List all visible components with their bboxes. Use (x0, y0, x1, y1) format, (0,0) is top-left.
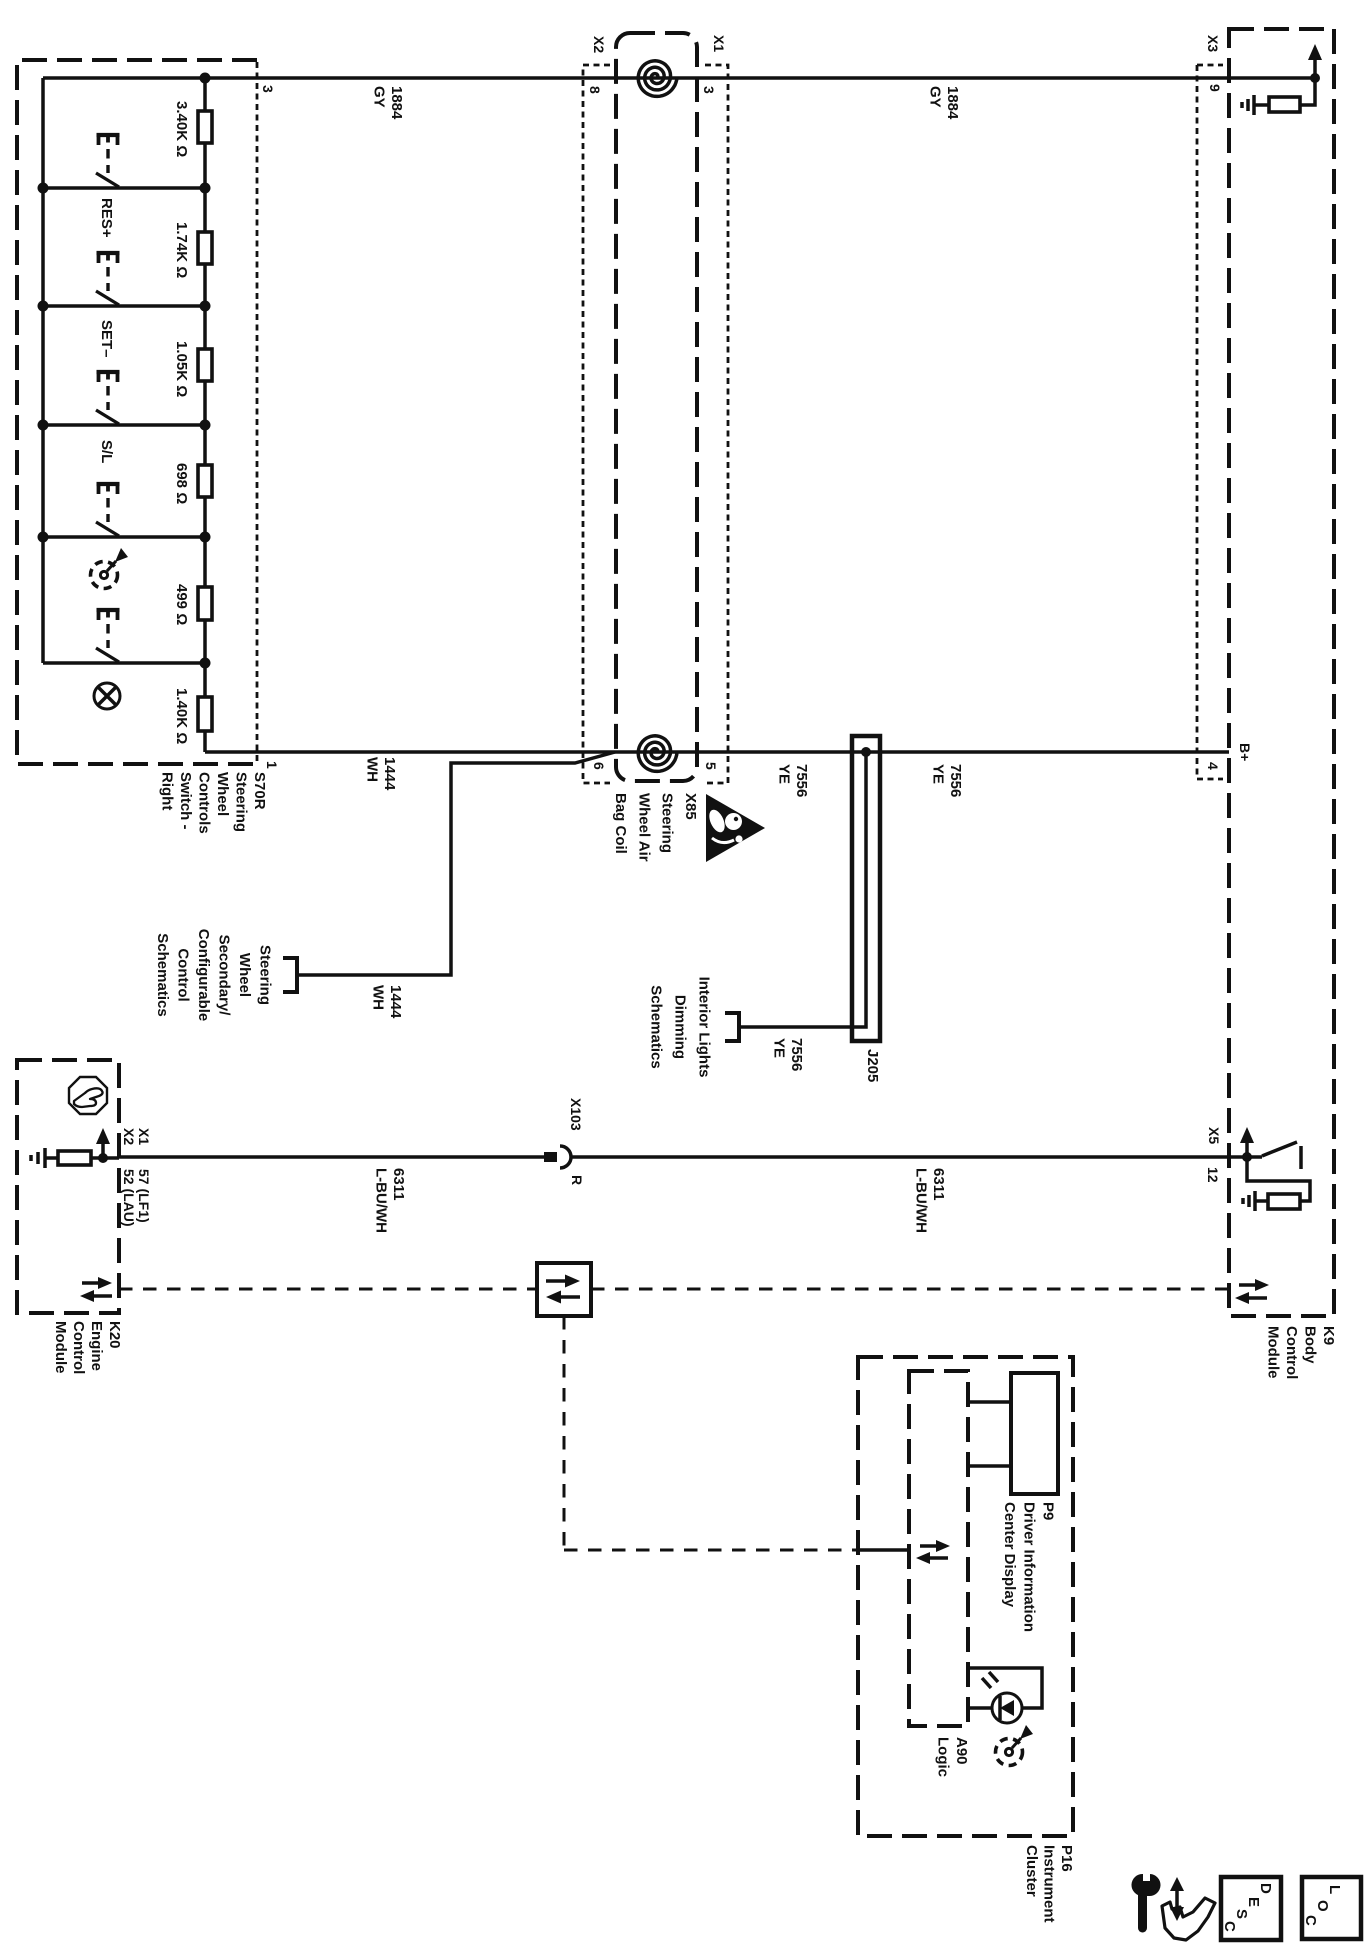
rung 4 (43, 423, 205, 427)
serial data arrows (gateway) (546, 1275, 580, 1304)
K20 engine control module label (52, 1321, 123, 1374)
svg-text:3.40K Ω: 3.40K Ω (173, 101, 190, 157)
air bag coil spiral (bottom) (638, 736, 677, 772)
BCM internal resistor to ground (top) (1254, 78, 1315, 112)
X2 connector dashed line (583, 65, 610, 783)
svg-text:Schematics: Schematics (154, 933, 171, 1016)
svg-text:Wheel Air: Wheel Air (635, 793, 652, 862)
svg-text:499 Ω: 499 Ω (173, 584, 190, 625)
rung 3 (43, 304, 205, 308)
X3 connector dashed line (1197, 65, 1223, 779)
ground symbol (ECM) (31, 1148, 45, 1168)
svg-text:3: 3 (701, 86, 717, 94)
svg-text:Wheel: Wheel (236, 953, 253, 997)
junction dot BCM top (1310, 73, 1320, 83)
S70R name label (159, 772, 269, 834)
svg-text:YE: YE (771, 1038, 788, 1058)
svg-text:52 (LAU): 52 (LAU) (121, 1169, 137, 1227)
svg-text:Secondary/: Secondary/ (216, 935, 233, 1017)
P9 label (1001, 1502, 1057, 1632)
svg-text:7556: 7556 (793, 764, 810, 797)
wire 6311 right segment (572, 1155, 1262, 1159)
svg-text:WH: WH (364, 757, 381, 782)
branch wire 1444 WH to schematic reference (297, 752, 615, 975)
wire label 7556 YE (right) (930, 764, 965, 797)
svg-text:WH: WH (370, 985, 387, 1010)
ECM pin labels X1 X2 (121, 1128, 152, 1145)
junction dots on ladder (38, 73, 211, 669)
svg-text:7556: 7556 (947, 764, 964, 797)
wire label 6311 L-BU/WH (right) (913, 1168, 948, 1233)
svg-text:X1: X1 (711, 35, 727, 52)
resistor 1.05K ohm (198, 349, 212, 381)
serial data dashed branch (down) (563, 1316, 566, 1550)
svg-text:Right: Right (159, 772, 176, 810)
ground symbol (BCM top) (1242, 95, 1254, 115)
switch cruise (below icon) (96, 610, 120, 662)
svg-text:GY: GY (371, 86, 388, 108)
junction dot at J205 (861, 747, 871, 757)
junction dot ECM (98, 1153, 108, 1163)
svg-text:YE: YE (776, 764, 793, 784)
svg-text:K20: K20 (106, 1321, 123, 1349)
P16 dashed box (858, 1357, 1073, 1836)
svg-text:Controls: Controls (196, 772, 213, 834)
BCM internal resistor to ground (X5) (1247, 1157, 1310, 1209)
schematic reference bracket (steering wheel secondary) (283, 958, 297, 992)
resistor 698 ohm (198, 465, 212, 497)
ladder left rail (41, 78, 45, 663)
svg-text:D: D (1257, 1883, 1274, 1894)
lamp symbol in S70R (94, 683, 120, 709)
svg-text:X3: X3 (1205, 35, 1221, 52)
svg-text:1444: 1444 (387, 985, 404, 1019)
serial data dashed line (ECM to gateway square) (119, 1288, 537, 1291)
svg-text:1884: 1884 (388, 86, 405, 120)
svg-text:C: C (1221, 1921, 1238, 1932)
svg-text:Switch -: Switch - (177, 772, 194, 830)
svg-text:Dimming: Dimming (672, 995, 689, 1059)
svg-text:S70R: S70R (251, 772, 268, 810)
ECM pin labels 57 (LF1) / 52 (LAU) (121, 1169, 152, 1227)
K20 ECM dashed box (17, 1060, 119, 1313)
wire 6311 left segment (119, 1155, 545, 1159)
serial data arrows (BCM) (1235, 1279, 1269, 1304)
ground symbol (BCM X5) (1243, 1191, 1255, 1211)
svg-text:1: 1 (264, 761, 280, 769)
svg-text:P9: P9 (1040, 1502, 1057, 1520)
svg-text:6: 6 (591, 762, 607, 770)
svg-text:X2: X2 (591, 36, 607, 53)
svg-text:K9: K9 (1320, 1326, 1337, 1345)
S70R connector dashed line (right edge) (256, 62, 259, 764)
svg-text:7556: 7556 (788, 1038, 805, 1071)
X103 inline connector (544, 1146, 571, 1168)
wire label 1884 GY (left) (371, 86, 406, 120)
svg-text:Control: Control (1283, 1326, 1300, 1379)
svg-text:57 (LF1): 57 (LF1) (136, 1169, 152, 1223)
LOC legend box (1302, 1877, 1361, 1939)
X1 connector dashed line (705, 65, 728, 783)
LED symbol (982, 1672, 1022, 1723)
schematic reference bracket (interior lights dimming) (725, 1013, 739, 1041)
A90 logic dashed box (909, 1371, 968, 1726)
svg-text:Schematics: Schematics (648, 985, 665, 1068)
svg-text:Control: Control (70, 1321, 87, 1374)
svg-text:L-BU/WH: L-BU/WH (373, 1168, 390, 1233)
svg-text:E: E (1245, 1897, 1262, 1907)
svg-text:Driver Information: Driver Information (1021, 1502, 1038, 1632)
switch SW1 (unlabeled) (96, 135, 120, 187)
air bag coil spiral (top) (638, 61, 677, 97)
svg-text:1.05K Ω: 1.05K Ω (173, 341, 190, 397)
A90 logic label (935, 1737, 971, 1777)
svg-text:6311: 6311 (390, 1168, 407, 1201)
svg-text:L-BU/WH: L-BU/WH (913, 1168, 930, 1233)
S70R component dashed box (17, 60, 261, 764)
svg-text:S/L: S/L (98, 440, 115, 463)
svg-text:Wheel: Wheel (214, 772, 231, 816)
svg-text:O: O (1314, 1900, 1331, 1912)
switch SET- (96, 372, 120, 424)
LED indicator circuit (968, 1668, 1042, 1708)
svg-text:Interior Lights: Interior Lights (696, 977, 713, 1078)
serial data dashed line (square to BCM) (591, 1288, 1229, 1291)
X85 component dashed box (616, 33, 697, 781)
svg-text:12: 12 (1205, 1167, 1221, 1183)
BCM internal B+ arrow (top) (1308, 44, 1322, 78)
switch RES+ (96, 253, 120, 305)
branch wire label 1444 WH (370, 985, 405, 1019)
svg-text:1444: 1444 (381, 757, 398, 791)
svg-text:Steering: Steering (659, 793, 676, 853)
svg-text:Configurable: Configurable (195, 929, 212, 1022)
resistor 1.74K ohm (198, 232, 212, 264)
svg-text:X2: X2 (121, 1128, 137, 1145)
svg-text:Logic: Logic (935, 1737, 952, 1777)
svg-text:Instrument: Instrument (1041, 1845, 1058, 1923)
air bag warning triangle (706, 794, 765, 862)
svg-text:1884: 1884 (944, 86, 961, 120)
branch wire 7556 YE to interior lights dimming (739, 752, 866, 1027)
svg-text:5: 5 (703, 762, 719, 770)
serial data line inside cluster (858, 1548, 909, 1552)
junction dot BCM X5 (1242, 1152, 1252, 1162)
octagon icon in ECM (69, 1077, 107, 1114)
svg-text:R: R (569, 1175, 585, 1185)
svg-text:Control: Control (175, 948, 192, 1001)
svg-text:J205: J205 (864, 1049, 881, 1082)
wrench and connector test icon (1131, 1874, 1215, 1940)
K9 body control module label (1265, 1326, 1338, 1379)
svg-text:L: L (1326, 1885, 1343, 1894)
gateway square (537, 1263, 591, 1316)
svg-text:RES+: RES+ (98, 198, 115, 238)
splice J205 rectangle (852, 736, 880, 1041)
wire label 6311 L-BU/WH (left) (373, 1168, 408, 1233)
branch wire label 7556 YE (771, 1038, 806, 1071)
P9 driver information center display box (1011, 1373, 1058, 1494)
svg-text:Cluster: Cluster (1023, 1845, 1040, 1897)
P16 instrument cluster label (1023, 1845, 1075, 1923)
svg-text:3: 3 (260, 85, 276, 93)
svg-text:X5: X5 (1206, 1127, 1222, 1144)
cruise speed icon in cluster (996, 1725, 1034, 1766)
wire label 1884 GY (right) (927, 86, 962, 120)
resistor 3.40K ohm (198, 111, 212, 143)
wire 1884 GY (top horizontal) (205, 76, 1315, 80)
svg-text:P16: P16 (1058, 1845, 1075, 1872)
svg-text:GY: GY (927, 86, 944, 108)
steering wheel secondary configurable control schematics label (154, 929, 274, 1022)
DESC legend box (1221, 1877, 1281, 1940)
resistor 1.40K ohm (198, 697, 212, 731)
svg-text:Engine: Engine (88, 1321, 105, 1371)
svg-text:1.40K Ω: 1.40K Ω (173, 688, 190, 744)
svg-text:Module: Module (1265, 1326, 1282, 1379)
svg-text:4: 4 (1205, 762, 1221, 770)
wire A90 to P9 (1) (968, 1400, 1011, 1404)
rung 5 (43, 535, 205, 539)
serial data arrows (ECM) (80, 1277, 112, 1302)
svg-text:X1: X1 (136, 1128, 152, 1145)
svg-text:Module: Module (52, 1321, 69, 1374)
svg-text:698 Ω: 698 Ω (173, 463, 190, 504)
svg-text:Bag Coil: Bag Coil (612, 793, 629, 854)
serial data arrows (cluster) (916, 1540, 950, 1564)
ladder right resistor rail (203, 78, 207, 752)
wire label 1444 WH (364, 757, 399, 791)
svg-text:Steering: Steering (233, 772, 250, 832)
cruise speed icon in S70R (91, 548, 129, 589)
wire A90 to P9 (2) (968, 1464, 1011, 1468)
X85 name label (612, 793, 699, 862)
svg-text:Body: Body (1302, 1326, 1319, 1364)
rung 2 (43, 186, 205, 190)
svg-text:9: 9 (1207, 84, 1223, 92)
K9 BCM dashed box (1229, 29, 1334, 1316)
wire label 7556 YE (left) (776, 764, 811, 797)
ECM internal resistor (45, 1151, 119, 1165)
svg-text:X103: X103 (568, 1098, 584, 1131)
svg-text:YE: YE (930, 764, 947, 784)
ECM internal arrow (96, 1128, 110, 1158)
svg-text:C: C (1302, 1915, 1319, 1926)
svg-text:6311: 6311 (930, 1168, 947, 1201)
BCM internal switch (X5) (1262, 1142, 1301, 1169)
svg-text:8: 8 (587, 86, 603, 94)
serial data dashed branch (to cluster) (564, 1549, 858, 1552)
svg-text:S: S (1233, 1909, 1250, 1919)
BCM internal arrow (X5) (1240, 1127, 1254, 1157)
switch S/L (96, 484, 120, 536)
rung 1 (top) (43, 76, 205, 80)
wire continues through coil to BCM (7556 YE) (616, 750, 1229, 754)
svg-text:B+: B+ (1237, 743, 1253, 761)
svg-text:SET–: SET– (98, 320, 115, 358)
svg-text:Center Display: Center Display (1001, 1502, 1018, 1608)
svg-text:X85: X85 (682, 793, 699, 820)
rung 6 (43, 661, 205, 665)
svg-text:Steering: Steering (257, 945, 274, 1005)
resistor 499 ohm (198, 587, 212, 620)
svg-text:A90: A90 (953, 1737, 970, 1765)
wire 1444 WH (S70R pin1 to coil pin6) (205, 750, 616, 754)
interior lights dimming schematics label (648, 977, 713, 1078)
svg-text:1.74K Ω: 1.74K Ω (173, 222, 190, 278)
